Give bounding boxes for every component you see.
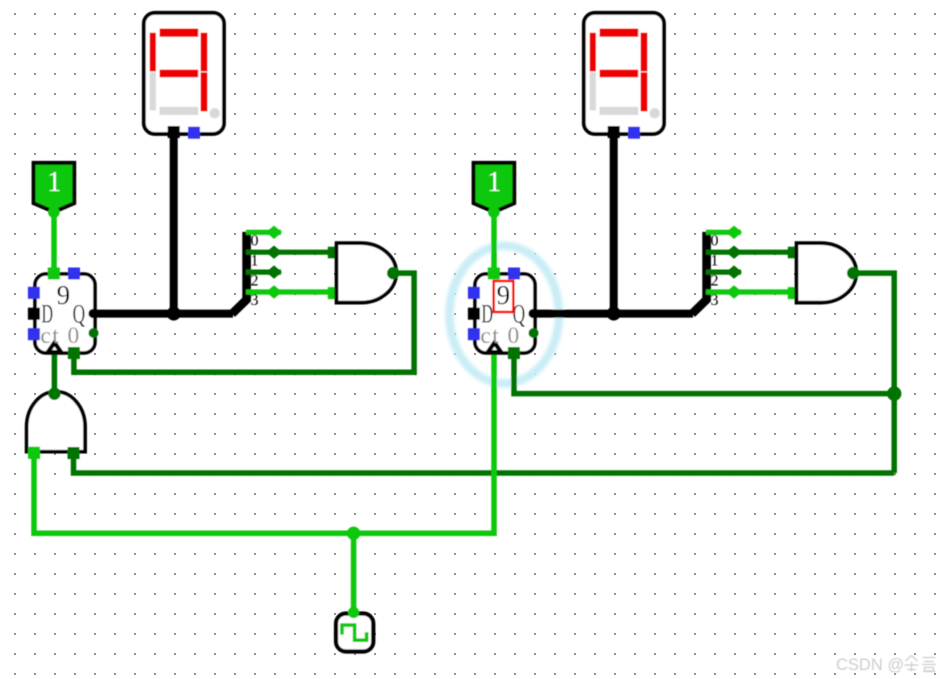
splitter S1 leg bit 3 (wire to AND U3 input) <box>246 289 329 294</box>
node B (bus junction under display DS2) <box>607 307 621 321</box>
counter U1 body <box>35 274 95 353</box>
splitter S2 arrow bit 3 <box>726 285 742 298</box>
svg-text:1: 1 <box>487 167 501 198</box>
edit cursor box around counter U2 value <box>494 281 514 312</box>
AND gate U5 (facing up) <box>27 388 86 459</box>
clock CLK1 waveform glyph <box>342 625 367 640</box>
wire: 4-bit bus from display DS1 input down to bus node A <box>170 132 178 314</box>
splitter S1 leg bit 1 (wire to AND U3 input) <box>246 250 329 255</box>
clock CLK1 body <box>336 614 373 652</box>
counter U2 unconnected top pin <box>508 268 520 280</box>
counter U2 <box>468 268 539 360</box>
wire: 4-bit bus from counter U2 output Q to splitter S2 <box>532 310 693 318</box>
counter U1 enable input port (connected, high) <box>48 268 60 280</box>
svg-text:3: 3 <box>251 292 259 309</box>
counter U2 clock input triangle <box>488 343 501 353</box>
watermark <box>836 656 936 675</box>
splitter S1 trunk <box>232 232 247 314</box>
svg-text:2: 2 <box>711 272 719 289</box>
splitter S1 leg bit 0 <box>246 230 281 235</box>
counter U1 unconnected top pin <box>68 268 80 280</box>
svg-text:9: 9 <box>497 280 511 310</box>
pin P2 output port <box>488 206 500 218</box>
svg-text:2: 2 <box>251 272 259 289</box>
splitter S1 <box>232 226 329 314</box>
svg-text:0: 0 <box>711 233 719 250</box>
display DS1 segment d (off) <box>160 107 199 115</box>
pin P2 body <box>474 163 515 212</box>
AND U4 input port (bit 1) <box>788 247 800 259</box>
splitter S2 arrow bit 1 <box>726 246 742 259</box>
display DS1 body <box>144 13 224 134</box>
AND U4 input port (bit 3) <box>788 287 800 299</box>
counter U1 output port Q <box>88 309 97 318</box>
AND gate U3 <box>328 243 400 303</box>
counter U2 enable input port (connected, high) <box>488 268 500 280</box>
svg-text:0: 0 <box>251 233 259 250</box>
pin P1 body <box>34 163 75 212</box>
display DS2 segment c (on) <box>641 72 648 111</box>
splitter S2 leg bit 3 (wire to AND U4 input) <box>706 289 789 294</box>
wire: from input pin P2 down to counter U2 enable input <box>491 208 497 270</box>
counter U2 unconnected left pin 1 <box>468 287 480 299</box>
display DS2 segment f (on) <box>590 33 596 72</box>
display DS2 segment e (off) <box>590 72 596 110</box>
splitter S1 arrow bit 3 <box>266 285 282 298</box>
AND U5 body <box>27 392 86 452</box>
counter U1 unconnected left pin 1 <box>28 287 40 299</box>
display DS1 segment g (on) <box>160 70 199 78</box>
AND U3 body <box>337 243 397 303</box>
wire: from input pin P1 down to counter U1 enable input <box>51 208 57 270</box>
splitter S1 arrow bit 1 <box>266 246 282 259</box>
splitter S2 leg bit 0 <box>706 230 741 235</box>
display DS1 decimal point (off) <box>210 108 220 118</box>
counter U1 load input port <box>68 347 80 359</box>
display DS2 segment d (off) <box>600 107 639 115</box>
wire: 4-bit bus from counter U1 output Q to splitter S1 <box>92 310 233 318</box>
splitter S2 leg bit 1 (wire to AND U4 input) <box>706 250 789 255</box>
node C (junction on AND U4 output net) <box>887 386 901 400</box>
display DS2 segment a (on) <box>600 29 639 37</box>
AND U4 output port <box>847 267 859 279</box>
counter U2 body <box>475 274 535 353</box>
counter U1 input port D <box>28 308 40 320</box>
selection halo around counter U2 <box>449 246 559 384</box>
wire: long bottom feedback from node C to AND U5 right input <box>74 456 895 473</box>
display DS2 segment b (on) <box>641 33 648 72</box>
svg-text:1: 1 <box>47 167 61 198</box>
svg-text:ct 0: ct 0 <box>480 323 520 349</box>
counter U2 output port Q <box>528 309 537 318</box>
counter U1 unconnected left pin 2 <box>28 328 40 340</box>
svg-text:1: 1 <box>251 252 259 269</box>
AND U3 input port (bit 1) <box>328 247 340 259</box>
clock CLK1 output port <box>348 607 359 618</box>
splitter S1 leg bit 2 <box>246 270 281 275</box>
wire: from node C left to counter U2 load input <box>514 356 894 394</box>
counter U1 carry output port <box>89 328 99 338</box>
wire: 4-bit bus from display DS2 input down to bus node B <box>610 132 618 314</box>
clock source CLK1 <box>336 607 373 652</box>
AND U4 body <box>797 243 857 303</box>
splitter S2 arrow bit 0 <box>726 226 742 239</box>
display DS1 value input port <box>168 126 180 138</box>
input pin P1 <box>34 163 75 218</box>
display DS2 value input port <box>608 126 620 138</box>
node A (bus junction under display DS1) <box>167 307 181 321</box>
node D (junction on clock net) <box>347 527 360 540</box>
splitter S1 arrow bit 0 <box>266 226 282 239</box>
counter U2 input port D <box>468 308 480 320</box>
AND U5 output port <box>48 388 60 400</box>
display DS2 segment g (on) <box>600 70 639 78</box>
display DS1 dp input pin (unconnected) <box>188 127 200 139</box>
wire: feedback from AND U3 output to counter U1 load input <box>74 273 414 372</box>
7-segment display DS2 <box>584 13 664 139</box>
wire: AND U4 output right then down to node C <box>856 273 894 473</box>
svg-text:3: 3 <box>711 292 719 309</box>
AND U3 input port (bit 3) <box>328 287 340 299</box>
display DS2 body <box>584 13 664 134</box>
splitter S2 <box>692 226 789 314</box>
7-segment display DS1 <box>144 13 224 139</box>
counter U2 carry output port <box>529 328 539 338</box>
AND gate U4 <box>788 243 860 303</box>
wire: AND U5 output up to counter U1 clock input <box>52 354 58 396</box>
input pin P2 <box>474 163 515 218</box>
svg-text:9: 9 <box>57 280 71 310</box>
svg-text:1: 1 <box>711 252 719 269</box>
wire: clock source CLK1 stub up to clock net <box>351 533 357 612</box>
AND U5 left input port (clock net) <box>28 447 40 459</box>
display DS2 decimal point (off) <box>650 108 660 118</box>
display DS1 segment f (on) <box>150 33 156 72</box>
svg-text:CSDN @: CSDN @ <box>836 656 904 674</box>
wire: clock net from AND U5 left input along bottom up to counter U2 clock input <box>34 355 494 534</box>
display DS1 segment a (on) <box>160 29 199 37</box>
counter U1 clock input triangle <box>48 343 61 353</box>
counter U2 load input port <box>508 347 520 359</box>
splitter S1 arrow bit 2 <box>266 265 282 278</box>
pin P1 output port <box>48 206 60 218</box>
counter U2 unconnected left pin 2 <box>468 328 480 340</box>
display DS1 segment c (on) <box>201 72 208 111</box>
display DS1 segment b (on) <box>201 33 208 72</box>
AND U3 output port <box>387 267 399 279</box>
svg-text:ct 0: ct 0 <box>40 323 80 349</box>
counter U1 <box>28 268 99 360</box>
splitter S2 trunk <box>692 232 707 314</box>
display DS1 segment e (off) <box>150 72 156 110</box>
AND U5 right input port (carry net) <box>68 447 80 459</box>
splitter S2 leg bit 2 <box>706 270 741 275</box>
display DS2 dp input pin (unconnected) <box>628 127 640 139</box>
splitter S2 arrow bit 2 <box>726 265 742 278</box>
